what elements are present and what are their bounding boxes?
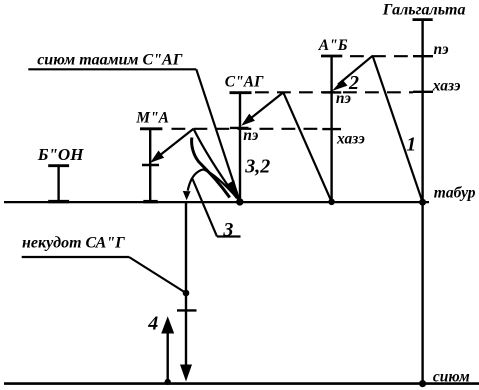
svg-text:Гальгальта: Гальгальта: [382, 1, 466, 18]
svg-text:М"А: М"А: [135, 110, 169, 127]
svg-text:Б"ОН: Б"ОН: [37, 145, 85, 164]
svg-text:пэ: пэ: [434, 41, 450, 58]
svg-text:сиюм таамим С"АГ: сиюм таамим С"АГ: [37, 51, 183, 68]
svg-text:табур: табур: [434, 185, 476, 202]
svg-text:С"АГ: С"АГ: [225, 74, 264, 91]
svg-text:3: 3: [222, 219, 233, 241]
svg-text:1: 1: [406, 134, 416, 156]
svg-text:4: 4: [147, 312, 158, 334]
svg-text:хазэ: хазэ: [336, 131, 365, 148]
svg-text:некудот СА"Г: некудот СА"Г: [22, 235, 125, 252]
svg-text:хазэ: хазэ: [432, 78, 461, 95]
svg-text:А"Б: А"Б: [318, 37, 348, 54]
svg-text:3,2: 3,2: [244, 156, 270, 178]
svg-text:пэ: пэ: [243, 127, 259, 144]
svg-text:сиюм: сиюм: [433, 369, 470, 386]
svg-text:2: 2: [348, 72, 359, 94]
